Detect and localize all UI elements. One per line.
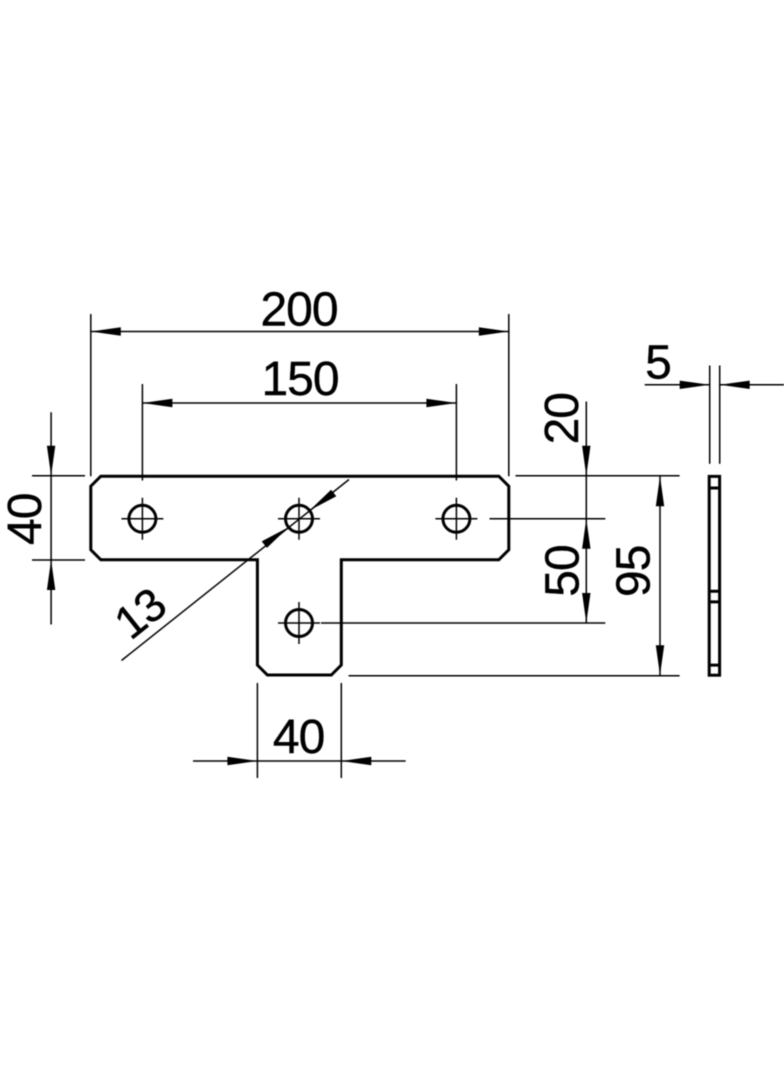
dimension 5 extension right [719,366,721,464]
side view plate section [709,476,719,675]
svg-text:20: 20 [536,393,589,444]
dimension 150 extension right [455,384,457,481]
dimension 40 bottom extension left [256,683,258,778]
dimension 200 extension right [508,314,510,476]
svg-text:50: 50 [537,545,590,596]
dimension 150 arrow left [142,399,172,407]
svg-text:40: 40 [0,494,52,545]
dimension 40 left extension bottom [32,559,85,561]
dimension 95 arrow bottom [656,645,664,675]
top edge extension line right [516,475,680,477]
svg-text:40: 40 [273,711,324,764]
svg-text:200: 200 [260,283,337,336]
bottom edge extension line right [349,675,680,677]
dimension 200 arrow right [479,327,509,335]
hole H4 centre extension line [321,622,605,624]
plate outline (T-shaped bracket, front view) [91,476,509,675]
svg-text:13: 13 [104,578,175,649]
hole H4 [286,610,313,637]
dimension 95 line [659,476,661,675]
dimension 40 bottom extension right [340,683,342,778]
dimension 95 arrow top [656,476,664,506]
hole H2 [286,505,313,532]
hole row centre extension line [490,518,606,520]
dimension 50 arrow up [582,519,590,549]
crosshair H2 [278,498,320,540]
hole H3 [443,505,470,532]
dimension 40 left extension top [32,475,85,477]
crosshair H1 [121,498,163,540]
dimension 5 arrow left [680,381,710,389]
side view edge lines [709,488,719,665]
dimension 5 extension left [709,366,711,464]
dimension 50 arrow down [582,593,590,623]
hole H1 [129,505,156,532]
dimension 40 bottom arrow right [341,757,371,765]
crosshair H4 [278,602,320,644]
svg-text:150: 150 [261,353,338,406]
leader 13 arrow lower [262,527,289,548]
dimension 200 extension left [90,314,92,476]
dimension 40 left line [50,412,52,624]
leader 13 arrow upper [310,490,337,511]
dimension 40 bottom arrow left [227,757,257,765]
dimension 5 line left [645,384,710,386]
dimension 200 arrow left [91,327,121,335]
dimension 200 line [91,331,509,333]
dimension 150 arrow right [426,399,456,407]
svg-text:5: 5 [645,337,672,390]
dimension 40 bottom line [193,760,406,762]
leader line hole diameter 13 [122,480,350,661]
dimension 20 arrow down [582,446,590,476]
crosshair H3 [435,498,477,540]
svg-text:95: 95 [608,546,661,597]
dimension 150 line [142,402,456,404]
dimension 40 left arrow top [47,446,55,476]
dimension 5 arrow right [720,381,750,389]
dimension 5 line right [720,384,784,386]
dimension 40 left arrow bottom [47,560,55,590]
dimension 150 extension left [141,384,143,481]
dimension 20/50 line [585,402,587,624]
